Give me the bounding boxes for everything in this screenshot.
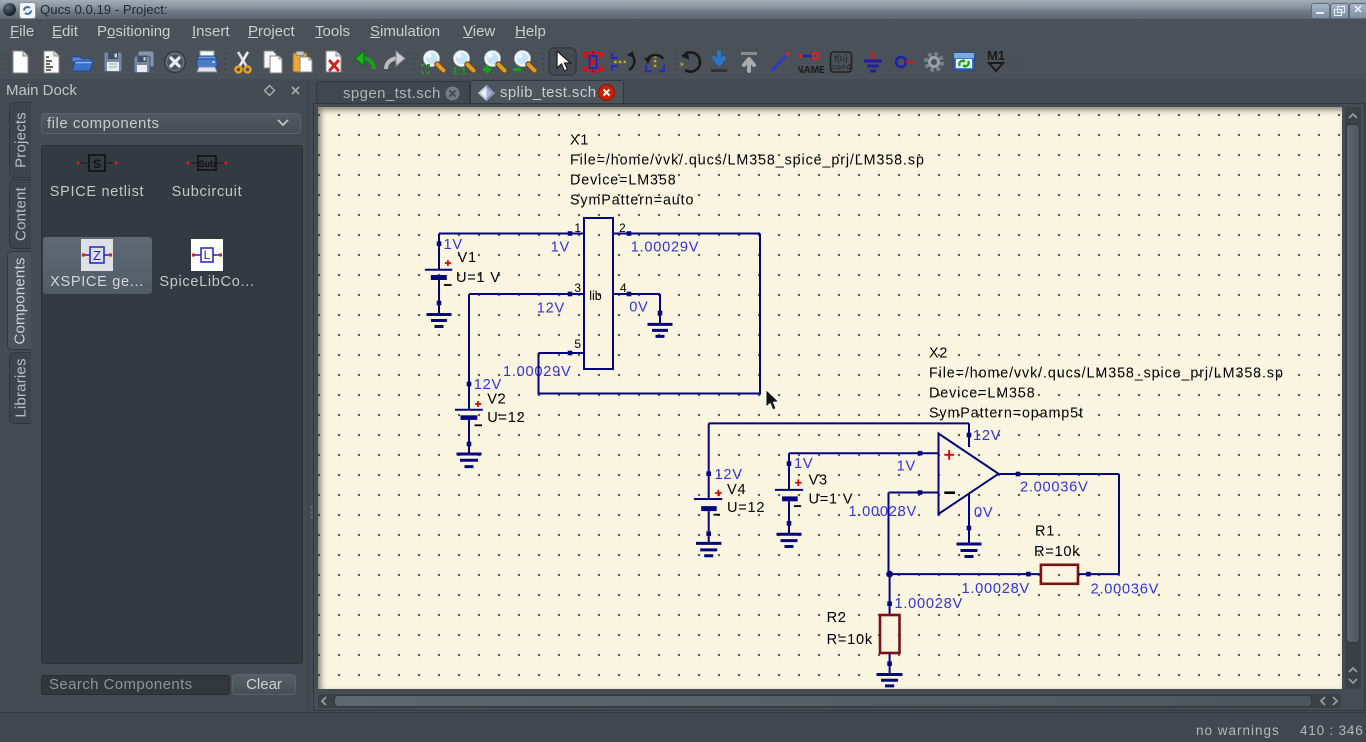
dock body — [41, 113, 301, 134]
wire V1 to pin1 — [439, 233, 584, 235]
wire inverting input — [889, 492, 939, 494]
voltage source V3 — [775, 490, 803, 501]
pressed pointer button frame — [549, 48, 576, 75]
wire V3 bottom — [788, 501, 790, 534]
subcircuit U X1 properties label — [570, 133, 925, 209]
junction pin4 — [627, 292, 632, 297]
subcircuit U X2 properties label — [929, 346, 1284, 422]
SPICE netlist item — [75, 153, 119, 173]
node 12V anchor at V4 — [706, 471, 711, 476]
ground below V2 — [457, 454, 482, 467]
svg-text:V1: V1 — [458, 250, 477, 266]
ground below V4 — [696, 543, 721, 555]
node 1V anchor — [437, 241, 442, 246]
V1 minus sign — [444, 284, 452, 286]
SpiceLibComp item — [191, 239, 223, 271]
horizontal scrollbar — [318, 694, 1341, 708]
svg-text:2.00036V: 2.00036V — [1091, 582, 1160, 598]
svg-text:File=/home/vvk/.qucs/LM358_spi: File=/home/vvk/.qucs/LM358_spice_prj/LM3… — [929, 366, 1284, 382]
svg-text:1.00029V: 1.00029V — [503, 364, 572, 380]
XSPICE selected item — [43, 237, 152, 294]
feedback wire pin2 to pin5 — [539, 234, 761, 394]
op-amp plus input sign — [944, 450, 954, 460]
svg-text:R1: R1 — [1035, 524, 1055, 540]
svg-text:12V: 12V — [537, 301, 565, 317]
ground at pin4 — [648, 324, 673, 336]
svg-text:L: L — [204, 248, 211, 262]
voltage source V1 — [425, 270, 452, 280]
svg-text:M1: M1 — [987, 49, 1005, 63]
svg-text:File=/home/vvk/.qucs/LM358_spi: File=/home/vvk/.qucs/LM358_spice_prj/LM3… — [570, 153, 925, 169]
svg-text:U=1 V: U=1 V — [456, 270, 501, 286]
V3 minus sign — [794, 505, 801, 507]
voltage source V2 — [455, 410, 483, 420]
svg-text:Z: Z — [93, 248, 101, 263]
wire pin4 stub — [613, 293, 660, 295]
svg-text:1V: 1V — [551, 240, 570, 256]
wire V2 bottom — [468, 420, 470, 454]
svg-text:R=10k: R=10k — [1034, 544, 1080, 560]
svg-text:12V: 12V — [715, 467, 743, 483]
anchor R1 left — [1026, 572, 1031, 577]
svg-text:12V: 12V — [973, 428, 1001, 444]
wire junction to R2 — [889, 574, 891, 615]
V2 ground anchor — [467, 442, 472, 447]
wire opamp power pin — [968, 423, 970, 447]
V2 minus sign — [475, 424, 482, 426]
vertical scrollbar — [1345, 107, 1361, 689]
junction pin2 — [627, 231, 632, 236]
anchor opamp output — [1016, 472, 1021, 477]
V3 plus sign — [795, 479, 802, 486]
V1 ground anchor — [437, 301, 442, 306]
svg-text:SymPattern=opamp5t: SymPattern=opamp5t — [929, 406, 1084, 422]
wire pin3 horizontal — [469, 293, 584, 295]
svg-text:X1: X1 — [570, 133, 589, 149]
wire output down to R1 — [1118, 474, 1120, 574]
svg-text:U=1 V: U=1 V — [809, 492, 854, 508]
ground below V1 — [427, 315, 452, 327]
op-amp X2 triangle — [939, 434, 999, 515]
wire opamp output — [999, 473, 1119, 475]
svg-text:1V: 1V — [794, 456, 813, 472]
anchor noninverting input — [918, 451, 923, 456]
V4 plus sign — [715, 490, 722, 497]
op-amp minus input sign — [944, 491, 955, 494]
wire V4 vertical — [708, 423, 710, 499]
anchor opamp bottom — [967, 526, 972, 531]
canvas pane — [313, 103, 1365, 711]
svg-text:2.00036V: 2.00036V — [1020, 480, 1089, 496]
wire noninverting input — [789, 452, 938, 454]
resistor R1 — [1041, 565, 1078, 584]
svg-text:Sub: Sub — [199, 159, 217, 169]
wire V1 bottom — [438, 280, 440, 315]
svg-text:1V: 1V — [897, 459, 916, 475]
mouse cursor — [766, 390, 779, 410]
wire pin3 down to V2 — [468, 294, 470, 410]
ground below opamp — [957, 544, 982, 557]
anchor R1 right — [1086, 572, 1091, 577]
wire feedback bottom — [889, 573, 1041, 575]
wire R1 right — [1078, 573, 1119, 575]
wire inverting input down — [888, 493, 890, 575]
svg-text:X2: X2 — [929, 346, 948, 362]
V3 ground anchor — [787, 521, 792, 526]
wire pin2 to feedback — [613, 233, 760, 235]
wire R2 to ground — [889, 653, 891, 675]
svg-text:Device=LM358: Device=LM358 — [929, 386, 1036, 402]
wire pin5 stub — [539, 352, 585, 354]
junction pin5 — [568, 351, 573, 356]
svg-text:U=12: U=12 — [487, 410, 525, 426]
wire V4 to opamp power top — [709, 422, 969, 424]
dock header — [6, 82, 77, 99]
junction dot feedback node — [886, 571, 893, 578]
svg-text:U=12: U=12 — [727, 500, 765, 516]
svg-text:=u+4: =u+4 — [831, 62, 852, 72]
svg-text:1.00028V: 1.00028V — [849, 504, 918, 520]
subcircuit X1 body — [584, 218, 613, 369]
junction pin1 — [568, 231, 573, 236]
ground below R2 — [877, 675, 903, 686]
svg-text:SymPattern=auto: SymPattern=auto — [570, 193, 694, 209]
vertical tabs — [9, 102, 31, 178]
V4 minus sign — [714, 514, 721, 516]
Subcircuit item — [185, 153, 229, 173]
anchor opamp power — [967, 433, 972, 438]
svg-text:5: 5 — [574, 337, 581, 351]
R2 ground anchor — [887, 661, 892, 666]
anchor inverting input — [918, 490, 923, 495]
wire V4 bottom — [708, 511, 710, 543]
search + clear — [41, 675, 230, 695]
svg-text:1:1: 1:1 — [452, 66, 467, 75]
svg-text:NAME: NAME — [798, 65, 824, 75]
node 1V anchor at V3 — [787, 461, 792, 466]
svg-text:1.00028V: 1.00028V — [962, 581, 1031, 597]
voltage source V4 — [694, 499, 722, 511]
dock/pane splitter — [308, 80, 309, 711]
svg-text:S: S — [93, 157, 101, 171]
svg-text:R2: R2 — [827, 610, 847, 626]
svg-text:lib: lib — [589, 289, 602, 303]
resistor R2 — [880, 615, 900, 653]
svg-text:3: 3 — [574, 281, 581, 295]
wire V3 top — [788, 453, 790, 490]
wire V1 top — [438, 234, 440, 270]
ground below V3 — [777, 534, 802, 546]
document tabs — [316, 81, 470, 105]
svg-text:4: 4 — [620, 281, 627, 295]
pin4 ground anchor — [658, 311, 663, 316]
wire opamp bottom pin — [968, 494, 970, 545]
svg-text:V2: V2 — [487, 392, 506, 408]
svg-text:Device=LM358: Device=LM358 — [570, 173, 677, 189]
svg-text:R=10k: R=10k — [827, 632, 873, 648]
V2 plus sign — [475, 401, 481, 407]
svg-text:V3: V3 — [809, 473, 828, 489]
svg-text:1.00028V: 1.00028V — [895, 596, 964, 612]
node anchor above R2 — [887, 601, 892, 606]
junction pin3 — [568, 292, 573, 297]
V1 plus sign — [445, 260, 451, 266]
wire pin4 to ground — [659, 294, 661, 324]
svg-text:0V: 0V — [974, 505, 993, 521]
svg-text:V4: V4 — [727, 482, 746, 498]
svg-text:0V: 0V — [629, 300, 648, 316]
node 12V anchor at V2 — [467, 382, 472, 387]
V4 ground anchor — [706, 531, 711, 536]
svg-text:1.00029V: 1.00029V — [631, 240, 700, 256]
